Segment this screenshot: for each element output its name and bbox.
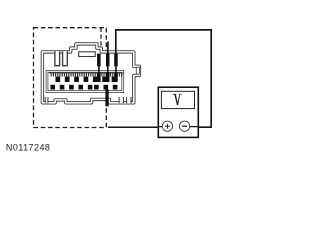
svg-text:N0117248: N0117248: [6, 142, 50, 152]
